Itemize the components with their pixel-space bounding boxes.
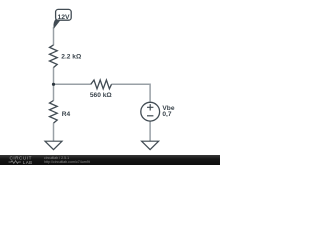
wire source V1 bottom to ground <box>149 122 151 142</box>
ground symbol left <box>45 141 62 149</box>
node flag 12V tail <box>53 18 60 28</box>
voltage source minus sign <box>147 115 153 117</box>
wire resistor 560k right to corner and down to source V1 top <box>111 84 150 102</box>
svg-text:0,7: 0,7 <box>162 111 171 118</box>
wire node to resistor 560k left <box>54 83 91 85</box>
svg-text:560 kΩ: 560 kΩ <box>90 92 113 99</box>
voltage source plus sign <box>147 104 153 110</box>
svg-text:2.2 kΩ: 2.2 kΩ <box>61 53 82 60</box>
wire from 12V flag to resistor R top <box>53 27 55 45</box>
CircuitLab logo <box>8 155 48 165</box>
svg-text:12V: 12V <box>57 14 70 21</box>
resistor 2.2k zigzag <box>50 45 58 68</box>
svg-text:LAB: LAB <box>23 160 32 165</box>
junction node dot <box>52 83 55 86</box>
watermark bar <box>0 155 220 165</box>
svg-text:R4: R4 <box>62 111 71 118</box>
wire resistor 2.2k bottom to node <box>53 67 55 84</box>
node flag 12V box <box>56 9 72 20</box>
ground symbol right <box>142 141 159 149</box>
voltage source V1 circle <box>141 102 160 121</box>
watermark text line 2 <box>44 160 90 164</box>
watermark text line 1 <box>44 156 69 160</box>
resistor 560k zigzag <box>91 80 112 89</box>
resistor R4 zigzag <box>50 101 58 124</box>
wire resistor R4 bottom to ground <box>53 123 55 141</box>
wire node down to resistor R4 top <box>53 84 55 100</box>
